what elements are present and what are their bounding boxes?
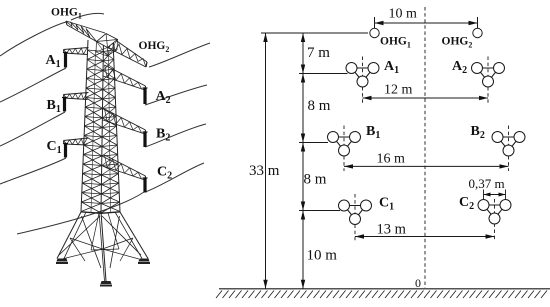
svg-text:10 m: 10 m — [307, 248, 338, 264]
svg-text:10 m: 10 m — [389, 7, 418, 22]
svg-text:33 m: 33 m — [249, 163, 280, 179]
svg-text:13 m: 13 m — [377, 222, 407, 238]
svg-text:8 m: 8 m — [308, 98, 331, 114]
svg-text:12 m: 12 m — [384, 83, 413, 98]
svg-text:OHG2: OHG2 — [139, 40, 170, 54]
svg-text:0,37 m: 0,37 m — [469, 176, 505, 191]
svg-text:0: 0 — [415, 276, 421, 290]
svg-text:OHG1: OHG1 — [51, 7, 82, 21]
svg-text:16 m: 16 m — [377, 152, 406, 167]
svg-text:7 m: 7 m — [307, 45, 330, 61]
svg-text:OHG2: OHG2 — [442, 36, 473, 50]
svg-text:8 m: 8 m — [304, 172, 327, 188]
svg-text:OHG1: OHG1 — [380, 36, 411, 50]
